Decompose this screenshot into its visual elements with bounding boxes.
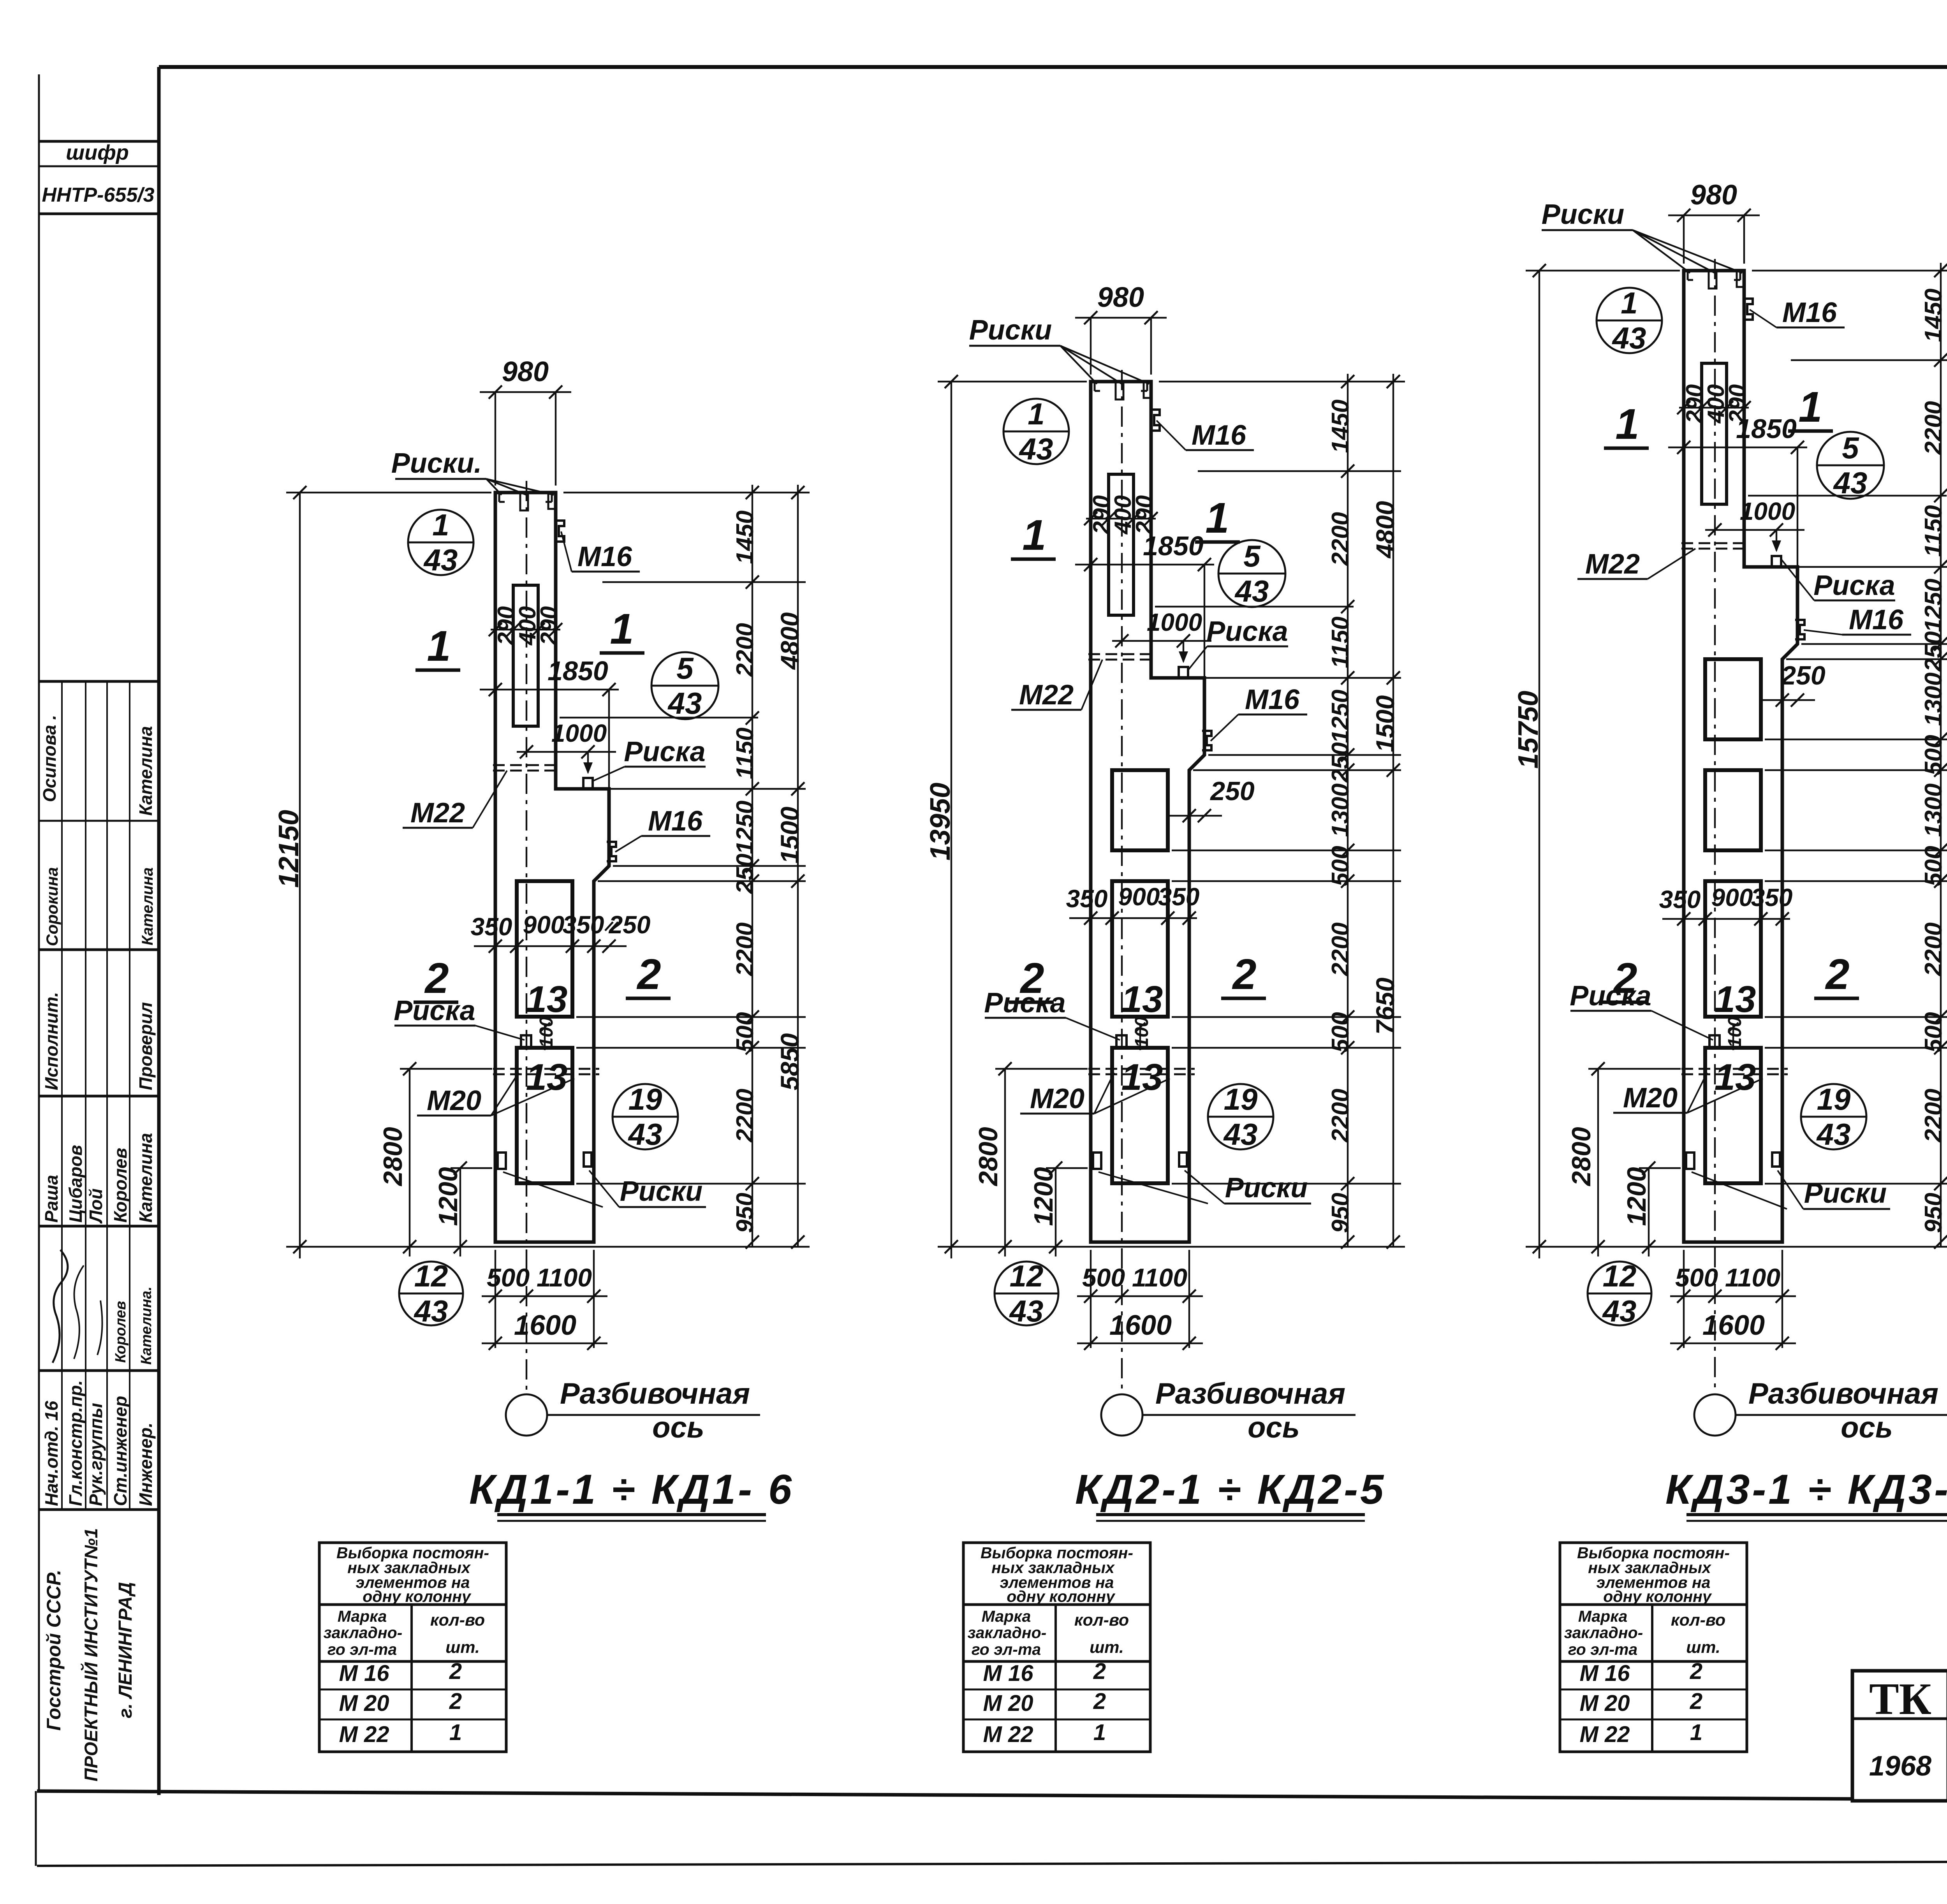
svg-text:2200: 2200 [732,1089,759,1143]
svg-text:М22: М22 [1019,679,1074,711]
svg-text:одну колонну: одну колонну [1603,1587,1712,1605]
svg-text:ННТР-655/3: ННТР-655/3 [42,184,155,206]
svg-text:2: 2 [1019,954,1044,1002]
svg-text:500: 500 [732,1012,759,1052]
column KD3 axis dash-dot line [1714,259,1716,1395]
svg-text:1600: 1600 [514,1310,576,1341]
svg-text:Осипова .: Осипова . [39,715,60,802]
title block frame [1852,1671,1947,1801]
column KD1 dim 1000 and console bolt [517,751,616,753]
svg-text:1300: 1300 [1920,672,1947,726]
embedded parts table at x=2474 [963,1543,1150,1752]
column KD2 slot width dim 290-400-290 [1086,518,1156,519]
svg-text:Риски: Риски [1542,199,1625,230]
column KD3 outline [1684,271,1797,1242]
svg-text:1: 1 [1028,397,1044,431]
svg-text:13: 13 [526,1056,568,1098]
svg-text:5: 5 [676,651,694,685]
svg-text:М20: М20 [427,1085,481,1116]
svg-text:КД2-1 ÷ КД2-5: КД2-1 ÷ КД2-5 [1075,1466,1386,1513]
svg-text:43: 43 [423,543,458,577]
svg-text:1: 1 [427,622,451,670]
svg-text:Разбивочная: Разбивочная [1155,1377,1345,1410]
column KD3 detail circle 19/43 [1801,1084,1866,1149]
svg-text:Королев: Королев [110,1148,130,1223]
column KD1 slot width dim 290-400-290 [491,629,560,630]
column KD3 bottom dims 500 1100 [1683,1250,1685,1348]
svg-text:Нач.отд. 16: Нач.отд. 16 [41,1401,62,1506]
svg-text:Разбивочная: Разбивочная [1748,1377,1938,1410]
column KD3 width dim 350-900-350 [1662,918,1790,920]
svg-text:43: 43 [1019,432,1053,466]
column KD3 M22 dashed lines [1681,542,1747,544]
column KD3 upper slot opening [1702,363,1727,504]
column KD3 top riska notches [1709,271,1716,289]
column KD3 layout axis circle [1694,1394,1736,1436]
svg-text:900: 900 [523,911,565,939]
svg-text:43: 43 [1602,1294,1637,1328]
column KD1 outline [495,493,609,1242]
column KD2 riski notches lower [1093,1153,1101,1169]
svg-text:12: 12 [1603,1259,1637,1293]
svg-text:КД3-1 ÷ КД3-6: КД3-1 ÷ КД3-6 [1665,1466,1947,1513]
svg-text:13: 13 [1715,978,1756,1020]
svg-text:2200: 2200 [1327,1089,1354,1143]
svg-text:шт.: шт. [1090,1638,1124,1657]
sheet bottom margin strip [37,1860,1947,1866]
svg-text:Марка: Марка [982,1607,1031,1625]
column KD2 M22 dashed lines [1088,653,1154,655]
svg-text:13: 13 [1121,978,1163,1020]
column KD1 bottom base dimension line [286,1246,810,1248]
svg-text:Ст.инженер: Ст.инженер [110,1396,130,1506]
column KD1 dim 1850 [480,689,619,690]
svg-text:Гл.констр.пр.: Гл.констр.пр. [65,1380,86,1506]
column KD1 riski notches lower [498,1153,506,1169]
svg-text:Лой: Лой [86,1188,106,1224]
svg-text:1500: 1500 [1371,695,1400,752]
embedded parts table at x=4006 [1560,1543,1747,1752]
svg-text:М20: М20 [1030,1083,1084,1114]
svg-text:2: 2 [1690,1689,1702,1714]
svg-text:2800: 2800 [1567,1127,1596,1186]
column KD1 upper slot opening [513,585,538,726]
svg-text:кол-во: кол-во [1671,1611,1725,1629]
embedded parts table at x=820 [319,1543,506,1752]
svg-text:М 20: М 20 [1580,1691,1630,1716]
column KD2 chain extension lines [1159,381,1405,382]
svg-text:М 16: М 16 [983,1661,1034,1686]
svg-text:500: 500 [1920,1012,1947,1052]
svg-text:100: 100 [1132,1017,1152,1048]
svg-text:2: 2 [1690,1659,1702,1684]
svg-text:Кателина: Кателина [136,1133,156,1223]
svg-text:2800: 2800 [378,1127,408,1186]
svg-text:го эл-та: го эл-та [1568,1640,1637,1658]
svg-text:ПРОЕКТНЫЙ ИНСТИТУТ№1: ПРОЕКТНЫЙ ИНСТИТУТ№1 [81,1528,101,1782]
svg-text:250: 250 [1780,661,1826,690]
svg-text:Риски: Риски [969,315,1052,346]
svg-text:1100: 1100 [1132,1263,1187,1292]
svg-text:1450: 1450 [732,510,759,564]
svg-text:980: 980 [502,356,549,387]
column KD3 M20 dashed lines [1681,1068,1788,1070]
column KD2 M16 hook lower [1202,731,1211,750]
svg-text:2200: 2200 [1327,512,1354,566]
svg-text:Рук.группы: Рук.группы [86,1403,106,1506]
svg-text:250: 250 [1920,631,1947,672]
svg-text:Госстрой СССР.: Госстрой СССР. [43,1570,65,1731]
svg-text:250: 250 [732,853,759,894]
column KD3 dim 1200 [1648,1168,1649,1256]
svg-text:го эл-та: го эл-та [972,1640,1041,1658]
svg-text:43: 43 [1612,321,1646,355]
svg-text:43: 43 [414,1294,448,1328]
svg-text:Кателина.: Кателина. [138,1286,155,1365]
column KD1 detail circle 1/43 [408,510,474,575]
column KD3 detail circle 1/43 [1597,288,1662,353]
svg-text:350: 350 [1066,885,1108,913]
svg-text:Риски.: Риски. [391,448,482,479]
svg-text:43: 43 [1234,574,1269,608]
sheet frame [159,65,1947,69]
svg-text:Риска: Риска [1813,570,1895,601]
svg-text:кол-во: кол-во [1074,1611,1129,1629]
column KD2 detail circle 12/43 [995,1262,1058,1325]
svg-text:500: 500 [487,1263,530,1292]
svg-text:1250: 1250 [732,801,759,854]
column KD3 detail circle 5/43 [1817,432,1884,499]
svg-text:М16: М16 [648,806,703,837]
column KD3 slot width dim 290-400-290 [1679,407,1749,408]
column KD2 dim 1200 [1055,1168,1056,1256]
column KD2 layout axis circle [1101,1394,1142,1436]
svg-text:1850: 1850 [1736,414,1797,444]
svg-text:М 20: М 20 [983,1691,1033,1716]
svg-text:500: 500 [1327,1012,1354,1052]
svg-text:43: 43 [1009,1294,1044,1328]
svg-text:290: 290 [536,606,562,646]
svg-text:М16: М16 [1192,420,1246,451]
svg-text:1250: 1250 [1327,690,1354,743]
svg-text:950: 950 [1920,1193,1947,1233]
svg-text:19: 19 [1817,1082,1851,1116]
svg-text:13: 13 [526,978,568,1020]
svg-text:1: 1 [1798,383,1822,431]
column KD1 bottom dim 1600 [482,1343,607,1344]
svg-text:Сорокина: Сорокина [43,867,61,946]
svg-text:Риски: Риски [620,1176,703,1207]
column KD3 bottom base dimension line [1526,1246,1947,1248]
column KD3 lower openings [1705,659,1761,739]
column KD2 outline [1091,382,1204,1242]
column KD2 dim 2800 [1004,1069,1006,1256]
column KD1 outer dimension chain [797,485,799,1247]
column KD2 dim 1850 [1075,564,1214,565]
column KD1 overall height dim 12150 [299,493,301,1258]
column KD1 layout axis leader [547,1414,760,1416]
column KD1 detail circle 5/43 [651,652,718,719]
svg-text:43: 43 [667,686,702,720]
column KD2 bottom dim 1600 [1077,1343,1203,1344]
column KD3 M16 hook upper [1743,299,1753,320]
svg-text:1250: 1250 [1920,579,1947,632]
column KD2 lower openings [1112,770,1168,850]
column KD2 top width dim 980 [1090,318,1091,375]
svg-text:2200: 2200 [732,922,759,977]
column KD2 axis dash-dot line [1121,370,1123,1395]
svg-text:1100: 1100 [1725,1263,1780,1292]
svg-text:1: 1 [432,508,449,542]
svg-text:950: 950 [732,1193,759,1233]
svg-text:950: 950 [1327,1193,1354,1233]
svg-text:1: 1 [449,1720,462,1745]
svg-text:5850: 5850 [775,1033,804,1090]
svg-text:1600: 1600 [1109,1310,1172,1341]
svg-text:900: 900 [1118,883,1160,911]
column KD2 width dim 350-900-350 [1069,917,1197,919]
svg-text:2: 2 [449,1689,462,1714]
column KD3 chain extension lines [1752,270,1947,271]
svg-text:2: 2 [1093,1659,1106,1684]
column KD2 layout axis leader [1142,1414,1356,1416]
column KD1 dim 2800 [409,1069,410,1256]
column KD1 width dim 350-900-350 [474,945,627,947]
svg-text:1450: 1450 [1920,289,1947,342]
svg-text:шт.: шт. [445,1638,480,1657]
svg-text:1150: 1150 [732,727,759,779]
column KD2 top riska notches [1116,382,1123,399]
svg-text:1: 1 [1615,400,1639,448]
column KD1 inner dimension chain [752,485,753,1247]
svg-text:1000: 1000 [1740,497,1795,525]
column KD2 bottom dims 500 1100 [1090,1250,1091,1348]
svg-text:2800: 2800 [974,1127,1003,1186]
svg-text:1: 1 [1022,511,1046,559]
svg-text:5: 5 [1243,539,1261,573]
column KD1 axis dash-dot line [526,481,527,1395]
svg-text:М 16: М 16 [339,1661,390,1686]
svg-text:М22: М22 [410,797,465,829]
svg-text:Проверил: Проверил [136,1002,156,1090]
svg-text:Риски: Риски [1225,1172,1308,1204]
column KD3 M16 hook lower [1795,620,1804,639]
column KD2 M16 hook upper [1150,410,1160,431]
svg-text:М 20: М 20 [339,1691,389,1716]
svg-text:100: 100 [536,1017,557,1048]
svg-text:900: 900 [1711,883,1753,912]
svg-text:19: 19 [1224,1082,1258,1116]
svg-text:2200: 2200 [1920,401,1947,455]
svg-text:КД1-1 ÷ КД1- 6: КД1-1 ÷ КД1- 6 [469,1466,794,1513]
svg-text:350: 350 [471,913,512,941]
column KD1 top width dim 980 [495,392,496,486]
svg-text:М 22: М 22 [1580,1722,1630,1747]
column KD1 bottom dims 500 1100 [495,1250,496,1348]
svg-text:1150: 1150 [1327,616,1354,668]
column KD1 M16 hook lower [607,842,616,861]
column KD2 detail circle 1/43 [1003,399,1069,464]
svg-text:13950: 13950 [925,783,956,860]
svg-text:1: 1 [1690,1720,1702,1745]
svg-text:500: 500 [1920,735,1947,775]
svg-text:Раша: Раша [41,1175,62,1223]
column KD3 dim 2800 [1597,1069,1599,1256]
column KD3 riska bolt on lower opening [1709,1035,1720,1048]
svg-text:350: 350 [1659,885,1701,913]
column KD2 overall height dim 13950 [951,382,952,1258]
svg-text:М16: М16 [1782,297,1837,328]
svg-text:100: 100 [1725,1017,1745,1048]
svg-text:М 16: М 16 [1580,1661,1630,1686]
column KD2 bottom base dimension line [938,1246,1405,1248]
column KD1 chain extension lines [563,492,810,493]
svg-text:250: 250 [1209,776,1255,806]
svg-text:43: 43 [628,1117,662,1151]
column KD1 dim 1200 [459,1168,461,1256]
svg-text:500: 500 [1920,846,1947,886]
svg-text:1: 1 [1093,1720,1106,1745]
svg-text:1: 1 [1621,286,1637,320]
svg-text:500: 500 [1082,1263,1125,1292]
left stamp strip border [38,74,40,1791]
svg-text:ТК: ТК [1869,1674,1931,1724]
svg-text:М 22: М 22 [983,1722,1033,1747]
svg-text:кол-во: кол-во [430,1611,485,1629]
svg-text:М22: М22 [1585,549,1640,580]
svg-text:1: 1 [610,605,634,653]
svg-text:2200: 2200 [1920,922,1947,977]
svg-text:1850: 1850 [1143,531,1204,561]
svg-text:350: 350 [1158,883,1200,911]
svg-text:500: 500 [1675,1263,1718,1292]
svg-text:Разбивочная: Разбивочная [560,1377,750,1410]
svg-text:980: 980 [1690,179,1737,211]
svg-text:7650: 7650 [1371,977,1400,1035]
svg-text:12: 12 [1010,1259,1044,1293]
svg-text:шифр: шифр [66,141,129,164]
svg-text:1200: 1200 [433,1167,463,1226]
column KD3 dim 1850 [1668,447,1807,448]
column KD3 top width dim 980 [1683,215,1685,264]
svg-text:Риска: Риска [1206,616,1288,647]
column KD1 M20 dashed lines [493,1068,599,1070]
svg-text:1200: 1200 [1622,1167,1651,1226]
svg-text:одну колонну: одну колонну [1007,1587,1116,1605]
svg-text:2: 2 [424,954,449,1002]
column KD3 layout axis leader [1736,1414,1947,1416]
svg-text:1300: 1300 [1327,783,1354,837]
column KD3 dim 1000 and console bolt [1705,529,1804,531]
column KD2 M20 dashed lines [1088,1068,1195,1070]
svg-text:шт.: шт. [1686,1638,1720,1657]
svg-text:Риска: Риска [624,736,705,767]
svg-text:5: 5 [1842,431,1859,465]
svg-text:М16: М16 [1245,684,1300,715]
svg-text:500: 500 [1327,846,1354,886]
svg-text:2200: 2200 [1327,922,1354,977]
svg-text:1450: 1450 [1327,399,1354,453]
column KD3 riski notches lower [1686,1153,1694,1169]
svg-text:ось: ось [1248,1411,1300,1444]
svg-text:закладно-: закладно- [324,1624,403,1642]
svg-text:Марка: Марка [1578,1607,1628,1625]
svg-text:2200: 2200 [732,623,759,677]
column KD1 lower openings [517,881,572,1017]
column KD1 top riska notches [520,493,528,510]
svg-text:М16: М16 [577,541,632,572]
svg-text:1200: 1200 [1029,1167,1058,1226]
svg-text:1968: 1968 [1869,1751,1931,1782]
svg-text:4800: 4800 [1371,501,1400,559]
svg-text:2: 2 [1825,950,1849,998]
svg-text:М20: М20 [1623,1082,1678,1114]
svg-text:Кателина: Кателина [139,868,156,945]
svg-text:1300: 1300 [1920,783,1947,837]
svg-text:2: 2 [449,1659,462,1684]
svg-text:го эл-та: го эл-та [327,1640,397,1658]
svg-text:2: 2 [1093,1689,1106,1714]
svg-text:1850: 1850 [547,656,608,686]
svg-text:ось: ось [652,1411,704,1444]
left stamp names table [39,680,159,683]
svg-text:ось: ось [1841,1411,1893,1444]
svg-text:М16: М16 [1849,604,1904,635]
svg-text:350: 350 [563,911,604,939]
svg-text:закладно-: закладно- [1564,1624,1643,1642]
svg-text:12: 12 [414,1259,448,1293]
column KD1 M22 dashed lines [493,764,558,766]
svg-text:1000: 1000 [1147,608,1202,636]
column KD3 inner dimension chain [1940,263,1942,1247]
column KD1 detail circle 12/43 [399,1262,463,1325]
svg-text:Риска: Риска [1570,980,1651,1012]
svg-text:1100: 1100 [537,1263,592,1292]
column KD2 detail circle 19/43 [1208,1084,1273,1149]
column KD3 bottom dim 1600 [1670,1343,1796,1344]
svg-text:19: 19 [628,1082,662,1116]
svg-text:4800: 4800 [775,612,804,670]
svg-text:закладно-: закладно- [968,1624,1047,1642]
svg-text:М 22: М 22 [339,1722,389,1747]
svg-text:250: 250 [1327,742,1354,783]
svg-text:Инженер.: Инженер. [136,1422,156,1506]
svg-text:1: 1 [1205,494,1229,542]
svg-text:43: 43 [1223,1117,1258,1151]
column KD1 M16 hook upper [554,521,564,542]
svg-text:Исполнит.: Исполнит. [41,992,62,1090]
column KD2 upper slot opening [1109,474,1134,615]
column KD1 detail circle 19/43 [613,1084,678,1149]
left stamp shifr box [39,140,159,143]
svg-text:1600: 1600 [1702,1310,1765,1341]
svg-text:Королев: Королев [113,1301,129,1363]
svg-text:1150: 1150 [1920,505,1947,557]
svg-text:2200: 2200 [1920,1089,1947,1143]
svg-text:одну колонну: одну колонну [363,1587,472,1605]
svg-text:Марка: Марка [338,1607,387,1625]
svg-text:12150: 12150 [273,810,305,888]
svg-text:г. ЛЕНИНГРАД: г. ЛЕНИНГРАД [115,1582,136,1718]
svg-text:2: 2 [636,950,661,998]
column KD3 overall height dim 15750 [1539,271,1540,1258]
svg-text:2: 2 [1232,950,1256,998]
column KD2 outer dimension chain [1392,374,1394,1247]
column KD3 detail circle 12/43 [1588,1262,1651,1325]
column KD1 riska bolt on lower opening [521,1035,531,1048]
column KD2 dim 1000 and console bolt [1112,640,1211,642]
svg-text:Кателина: Кателина [136,726,156,816]
